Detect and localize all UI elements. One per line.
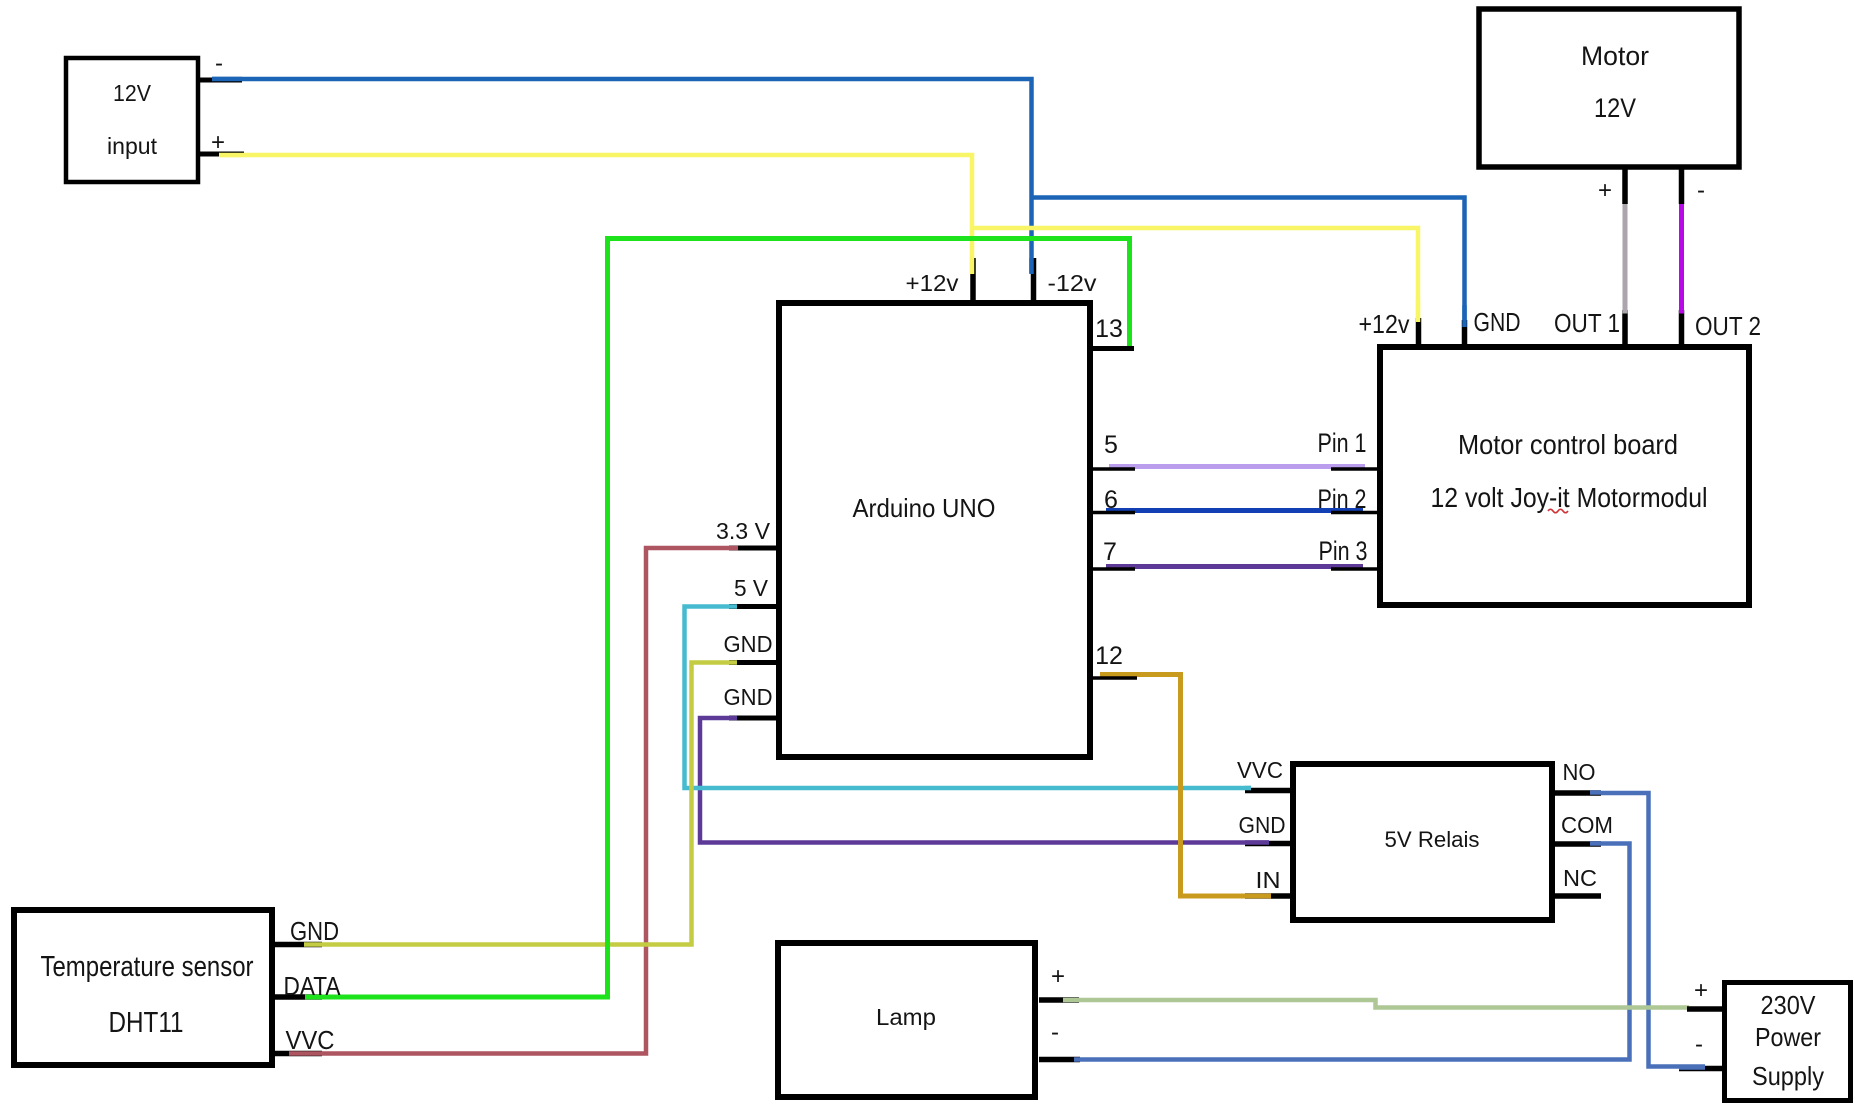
wire blue tip over Arduino -12v stub xyxy=(1029,258,1034,274)
svg-text:-: - xyxy=(1695,1031,1703,1058)
svg-text:12V: 12V xyxy=(113,80,152,106)
wire blue tip over relay NO stub xyxy=(1590,790,1601,795)
terminal stub Arduino 7 xyxy=(1087,567,1135,571)
wire blue tip over relay COM stub xyxy=(1590,841,1601,846)
wire purple tip over Arduino GND2 stub xyxy=(729,716,737,721)
svg-text:GND: GND xyxy=(724,684,773,710)
wire blue tip over board stub xyxy=(1462,305,1467,327)
svg-text:VVC: VVC xyxy=(286,1025,335,1055)
wire yellow 12V input plus to Arduino +12v xyxy=(219,155,972,273)
svg-text:GND: GND xyxy=(724,631,773,657)
svg-text:5 V: 5 V xyxy=(734,575,769,601)
svg-text:+: + xyxy=(211,129,225,156)
terminal stub relay GND xyxy=(1245,841,1291,847)
svg-text:Motor: Motor xyxy=(1581,41,1649,71)
wire light green lamp plus to power supply plus xyxy=(1063,1000,1689,1008)
svg-text:+: + xyxy=(1051,963,1065,990)
wire magenta motor minus to OUT 2 xyxy=(1679,203,1684,313)
svg-text:Temperature sensor: Temperature sensor xyxy=(41,951,254,983)
svg-text:+: + xyxy=(1694,977,1708,1004)
terminal stub motor board GND xyxy=(1462,320,1468,346)
svg-text:12V: 12V xyxy=(1594,93,1636,123)
wire yellow tip over board stub xyxy=(1416,300,1421,322)
terminal stub Arduino +12v xyxy=(970,258,976,303)
svg-text:Pin 1: Pin 1 xyxy=(1318,428,1367,458)
wire cyan Arduino 5V to relay VVC xyxy=(685,607,1252,789)
svg-text:12: 12 xyxy=(1095,642,1123,670)
wire green DHT11 DATA to Arduino 13 xyxy=(305,239,1130,998)
box Lamp xyxy=(778,943,1035,1097)
terminal stub Arduino 5V xyxy=(729,604,776,609)
wire lavender Arduino 5 to Pin 1 xyxy=(1109,464,1365,469)
terminal stub motor plus xyxy=(1622,169,1628,204)
svg-text:GND: GND xyxy=(1239,812,1286,838)
wire blue relay NO to power supply minus xyxy=(1590,793,1705,1067)
wire purple Arduino GND to relay GND xyxy=(700,718,1269,843)
svg-text:7: 7 xyxy=(1103,538,1117,566)
svg-text:Supply: Supply xyxy=(1752,1061,1824,1091)
wire brown tip over DHT stub xyxy=(289,1051,322,1056)
svg-text:OUT 2: OUT 2 xyxy=(1695,311,1761,341)
svg-text:NO: NO xyxy=(1563,759,1596,785)
wire blue 12V input minus to Arduino -12v xyxy=(212,79,1032,273)
wire cyan tip over relay VVC stub xyxy=(1245,786,1251,791)
wire blue relay COM to lamp minus xyxy=(1074,844,1630,1060)
wire blue tip over lamp stub xyxy=(1074,1057,1080,1062)
wire gray tip over OUT 1 stub xyxy=(1623,306,1628,314)
box 5V Relais xyxy=(1293,764,1552,920)
svg-text:DHT11: DHT11 xyxy=(109,1007,184,1039)
wire navy Arduino 6 to Pin 2 xyxy=(1106,508,1363,513)
svg-text:5: 5 xyxy=(1104,431,1118,459)
terminal stub lamp minus xyxy=(1039,1057,1080,1063)
box 230V Power Supply xyxy=(1725,983,1851,1101)
svg-text:COM: COM xyxy=(1561,812,1613,838)
svg-text:+12v: +12v xyxy=(1359,309,1410,339)
wire yellow branch to motor board +12v xyxy=(972,228,1418,322)
spellcheck squiggle under Joy-it xyxy=(1548,509,1568,513)
wire magenta tip over OUT 2 stub xyxy=(1679,306,1684,314)
svg-text:Pin 3: Pin 3 xyxy=(1319,536,1368,566)
svg-text:DATA: DATA xyxy=(284,971,342,1001)
terminal stub DHT11 GND xyxy=(275,942,322,948)
terminal stub DHT11 DATA xyxy=(275,994,322,1000)
svg-text:230V: 230V xyxy=(1761,990,1817,1020)
svg-text:NC: NC xyxy=(1563,865,1597,891)
wire gray motor plus to OUT 1 xyxy=(1623,203,1628,313)
svg-text:IN: IN xyxy=(1256,867,1281,893)
terminal stub relay IN xyxy=(1245,893,1291,899)
terminal stub 12V input plus xyxy=(200,152,244,157)
wire yellow tip over Arduino +12v stub xyxy=(970,258,975,274)
svg-text:GND: GND xyxy=(1474,307,1521,337)
terminal stub relay NC xyxy=(1554,893,1601,899)
box Motor 12V xyxy=(1479,9,1739,167)
wire cyan tip over Arduino 5V stub xyxy=(729,604,737,609)
terminal stub Arduino GND2 xyxy=(729,716,776,721)
wire gold Arduino 12 to relay IN xyxy=(1100,675,1271,897)
wire purple tip over relay GND stub xyxy=(1245,840,1269,845)
terminal stub motor board OUT 1 xyxy=(1622,310,1628,346)
box Temperature sensor DHT11 xyxy=(14,910,272,1065)
terminal stub Arduino 3.3V xyxy=(729,546,776,551)
terminal stub lamp plus xyxy=(1039,997,1079,1003)
svg-text:+12v: +12v xyxy=(906,270,960,296)
svg-text:Power: Power xyxy=(1755,1022,1821,1052)
terminal stub Arduino 5 xyxy=(1087,467,1135,471)
terminal stub power supply minus xyxy=(1679,1066,1722,1072)
wire olive Arduino GND to DHT11 GND xyxy=(304,663,740,945)
terminal stub Arduino -12v xyxy=(1031,258,1037,303)
svg-text:3.3 V: 3.3 V xyxy=(716,518,771,544)
terminal stub power supply plus xyxy=(1687,1006,1722,1012)
svg-text:6: 6 xyxy=(1104,486,1118,514)
svg-text:Arduino UNO: Arduino UNO xyxy=(853,493,996,523)
svg-text:-: - xyxy=(215,50,223,77)
terminal stub Arduino 13 xyxy=(1090,346,1134,351)
wire olive tip over DHT stub xyxy=(304,942,322,947)
terminal stub relay VVC xyxy=(1245,788,1291,794)
terminal stub Arduino 6 xyxy=(1087,511,1135,515)
svg-text:GND: GND xyxy=(290,916,339,946)
wire yellow over plus stub xyxy=(219,153,244,158)
svg-text:13: 13 xyxy=(1095,315,1123,343)
svg-text:VVC: VVC xyxy=(1237,757,1283,783)
svg-text:-12v: -12v xyxy=(1048,270,1098,296)
box 12V input xyxy=(66,58,198,182)
svg-text:OUT 1: OUT 1 xyxy=(1554,308,1620,338)
wire blue branch to motor board GND xyxy=(1032,198,1465,328)
wire brown tip over Arduino 3.3V stub xyxy=(729,546,738,551)
box Motor control board xyxy=(1380,347,1749,605)
wire light green tip over lamp stub xyxy=(1063,998,1079,1003)
wire gold tip over relay IN stub xyxy=(1245,894,1271,899)
svg-text:-: - xyxy=(1051,1019,1059,1046)
svg-text:Motor control board: Motor control board xyxy=(1458,429,1678,460)
wire blue over minus stub xyxy=(212,77,242,82)
terminal stub relay COM xyxy=(1554,841,1601,847)
terminal stub motor board +12v xyxy=(1416,318,1422,346)
svg-text:12 volt Joy-it Motormodul: 12 volt Joy-it Motormodul xyxy=(1431,482,1708,513)
terminal stub motor minus xyxy=(1679,169,1685,204)
terminal stub Pin 3 xyxy=(1331,567,1380,571)
terminal stub DHT11 VVC xyxy=(275,1051,322,1057)
terminal stub Arduino GND1 xyxy=(729,660,776,665)
svg-text:5V Relais: 5V Relais xyxy=(1385,827,1480,852)
terminal stub Pin 1 xyxy=(1331,467,1380,471)
terminal stub Arduino 12 xyxy=(1090,676,1137,680)
wire blue tip over power supply stub xyxy=(1679,1065,1705,1070)
wire olive tip over Arduino GND1 stub xyxy=(729,660,737,665)
svg-text:input: input xyxy=(107,133,158,159)
terminal stub relay NO xyxy=(1554,790,1601,796)
box Arduino UNO xyxy=(779,303,1090,757)
wire darkpurple Arduino 7 to Pin 3 xyxy=(1106,564,1363,569)
svg-text:Lamp: Lamp xyxy=(876,1004,936,1030)
terminal stub 12V input minus xyxy=(200,78,242,83)
svg-text:Pin 2: Pin 2 xyxy=(1318,484,1367,514)
svg-text:-: - xyxy=(1697,177,1705,204)
wire green tip over DHT stub xyxy=(305,995,322,1000)
terminal stub motor board OUT 2 xyxy=(1679,310,1685,346)
terminal stub Pin 2 xyxy=(1331,511,1380,515)
wire brown Arduino 3.3V to DHT11 VVC xyxy=(289,548,740,1054)
svg-text:+: + xyxy=(1598,177,1612,204)
